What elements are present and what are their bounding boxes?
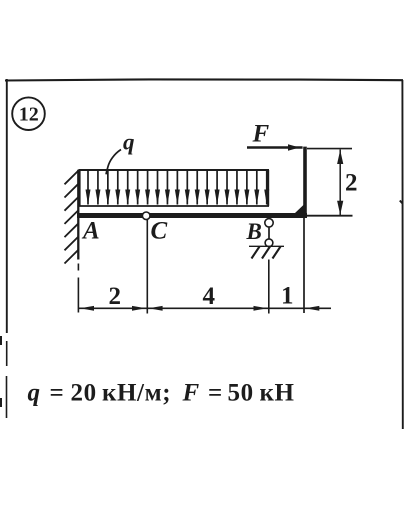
post fillet triangle xyxy=(292,204,304,216)
frame left edge marks xyxy=(0,336,2,407)
extension line below C xyxy=(146,220,148,314)
frame left border lower dashes xyxy=(6,341,8,418)
svg-text:2: 2 xyxy=(345,170,358,197)
extension line below post xyxy=(303,218,305,313)
dim arrowhead left of C xyxy=(132,306,146,311)
extension line below A xyxy=(77,264,79,313)
frame top border line xyxy=(5,79,403,80)
vertical post at right end of beam xyxy=(303,147,307,216)
svg-text:q=20кН/м;F=50кН: q=20кН/м;F=50кН xyxy=(28,380,295,407)
support B ground line xyxy=(249,245,284,247)
svg-text:12: 12 xyxy=(19,104,39,126)
svg-text:2: 2 xyxy=(109,283,122,310)
dim arrowhead right of C xyxy=(149,306,163,311)
dimension 2 top extension line xyxy=(307,148,352,150)
svg-text:1: 1 xyxy=(281,283,294,310)
force F arrowhead xyxy=(288,144,300,151)
extension line below B xyxy=(268,260,270,314)
beam AB (thick bar) xyxy=(77,213,307,218)
svg-text:C: C xyxy=(151,217,168,244)
distributed load q box top line xyxy=(78,169,269,171)
support B lower circle xyxy=(265,239,273,247)
label q leader line xyxy=(106,150,121,175)
hinge circle at C xyxy=(142,212,150,220)
circle 12 badge xyxy=(12,97,45,130)
dimension 2 top arrowhead xyxy=(337,150,343,164)
bottom dimension line xyxy=(78,307,331,309)
frame right border tick xyxy=(400,201,403,204)
dimension 2 vertical line xyxy=(339,150,341,216)
svg-text:B: B xyxy=(246,219,262,244)
dim arrowhead at B xyxy=(254,306,268,311)
dimension 2 bottom arrowhead xyxy=(337,201,343,215)
distributed load q box left edge xyxy=(79,170,81,206)
frame left border line xyxy=(6,79,8,333)
support B ground hatching xyxy=(252,247,281,259)
svg-text:q: q xyxy=(123,130,135,155)
support B link xyxy=(268,227,270,239)
support B upper circle xyxy=(265,219,273,227)
svg-text:F: F xyxy=(252,121,270,148)
dimension 2 bottom extension line xyxy=(307,215,353,217)
dim arrowhead right of post xyxy=(305,306,319,311)
distributed load q box bottom line xyxy=(78,205,269,207)
frame right border line xyxy=(401,80,403,429)
svg-text:4: 4 xyxy=(203,283,216,310)
svg-text:A: A xyxy=(81,217,100,244)
distributed load arrows xyxy=(86,171,270,205)
force F arrow line xyxy=(247,146,303,148)
wall line at A xyxy=(77,170,79,260)
distributed load q box right edge xyxy=(267,170,269,206)
wall hatching xyxy=(65,171,79,264)
dim arrowhead at A xyxy=(80,306,94,311)
